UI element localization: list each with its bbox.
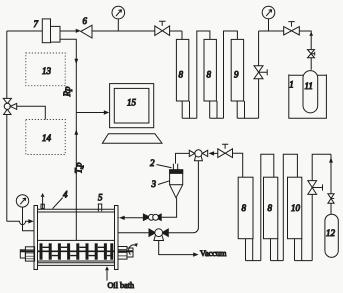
column 8 (bottom #2) xyxy=(264,177,284,260)
valve V6 (3-way to vacuum) xyxy=(149,229,168,241)
valve V5 (two-ball valve upper) xyxy=(143,198,176,221)
column 8 (top #2) xyxy=(204,39,224,118)
svg-text:11: 11 xyxy=(305,81,313,91)
monitor 15 xyxy=(110,84,154,128)
shaft seal right xyxy=(118,247,133,260)
wire: left vertical line xyxy=(6,31,8,221)
Oil bath label with leader xyxy=(105,266,134,290)
component 7 (pressure regulator block) xyxy=(42,19,50,43)
dashed box 13 xyxy=(26,53,65,86)
gauge P3 (reactor) xyxy=(16,195,34,231)
reactor inner tube xyxy=(38,240,115,261)
svg-text:4: 4 xyxy=(63,190,68,200)
dashed box 14 xyxy=(26,120,65,155)
svg-text:3: 3 xyxy=(151,179,157,189)
svg-text:8: 8 xyxy=(268,203,273,213)
svg-text:15: 15 xyxy=(127,98,137,108)
vessel 11 in beaker xyxy=(289,71,327,119)
svg-text:5: 5 xyxy=(98,193,103,203)
valve V2 (vertical, stem right) xyxy=(254,66,267,79)
wire: riser to column 3 xyxy=(224,31,238,118)
wire: riser through valve V9 xyxy=(312,154,331,260)
valve V1 with stem xyxy=(155,21,170,35)
svg-text:8: 8 xyxy=(207,70,212,80)
node: 3-way valve left (circle center) xyxy=(3,98,45,119)
wire: main top line left section xyxy=(7,30,182,32)
svg-text:Vaccum: Vaccum xyxy=(200,249,227,258)
gauge P2 xyxy=(262,6,275,31)
wire: riser to bottom column 2 xyxy=(261,154,274,260)
svg-text:10: 10 xyxy=(291,203,301,213)
svg-text:6: 6 xyxy=(83,16,88,26)
keyboard xyxy=(102,134,162,144)
wire: vacuum line xyxy=(159,241,227,258)
label 3 with leader xyxy=(151,179,170,189)
column 8 (top #1) xyxy=(176,31,196,118)
svg-text:Oil bath: Oil bath xyxy=(108,281,135,290)
arrow left on line xyxy=(209,151,215,155)
wire: Rp/T,p vertical line xyxy=(60,39,78,240)
wire: reactor outlet upper right with left arrow xyxy=(118,216,143,220)
wire: branch to monitor with arrow xyxy=(76,110,109,114)
gauge P1 xyxy=(112,6,125,31)
wire: top right run xyxy=(259,31,312,49)
svg-text:Rp: Rp xyxy=(62,86,72,97)
shaft seal left xyxy=(20,247,34,261)
svg-text:8: 8 xyxy=(242,203,247,213)
reactor vent stub with up arrow xyxy=(41,193,45,209)
rotation arrow xyxy=(129,243,138,254)
svg-text:T,p: T,p xyxy=(74,162,84,174)
wire: riser to bottom column 3 xyxy=(283,154,297,260)
column 10 (bottom #3) xyxy=(288,177,313,260)
svg-text:7: 7 xyxy=(34,19,39,29)
wire: riser to column 2 xyxy=(197,31,210,118)
valve V10 (small, above cylinder) xyxy=(328,194,334,203)
wire: riser through vertical valve xyxy=(258,31,260,118)
svg-text:8: 8 xyxy=(179,70,184,80)
svg-text:9: 9 xyxy=(234,70,239,80)
column 8 (bottom #1) xyxy=(238,177,261,260)
valve V3 with stem xyxy=(284,22,300,35)
valve 6 xyxy=(76,16,92,38)
stirrer paddles (comb pattern) xyxy=(40,244,113,259)
wire: line to cylinder 12 with up arrow xyxy=(329,154,333,214)
valve V7 (3-way with bottom port) xyxy=(189,150,207,161)
wire: from V7 bottom to reactor lower line xyxy=(168,161,198,233)
svg-text:14: 14 xyxy=(42,133,52,143)
arrow up on drop to vessel 11 xyxy=(309,32,313,36)
label 4 with leader xyxy=(53,190,69,209)
funnel (items 2,3) xyxy=(170,153,190,197)
svg-text:1: 1 xyxy=(289,80,294,90)
wire: reactor outlet lower with valve V6 xyxy=(118,232,149,234)
svg-text:13: 13 xyxy=(42,66,52,76)
valve V9 (vertical, stem right) xyxy=(308,181,323,195)
svg-text:2: 2 xyxy=(150,158,155,168)
reactor vessel (oil bath container) xyxy=(34,206,118,270)
valve V4 (small, above vessel 11) xyxy=(308,50,315,70)
column 9 (top #3) xyxy=(231,39,258,118)
wire: reactor inlet left with hop and arrow xyxy=(7,219,34,225)
svg-text:12: 12 xyxy=(326,228,336,238)
fitting 5 xyxy=(98,193,103,212)
valve V8 with stem xyxy=(218,144,243,177)
gas cylinder 12 xyxy=(325,214,338,257)
label 2 with leader xyxy=(150,158,172,168)
stirrer shaft xyxy=(20,250,133,252)
